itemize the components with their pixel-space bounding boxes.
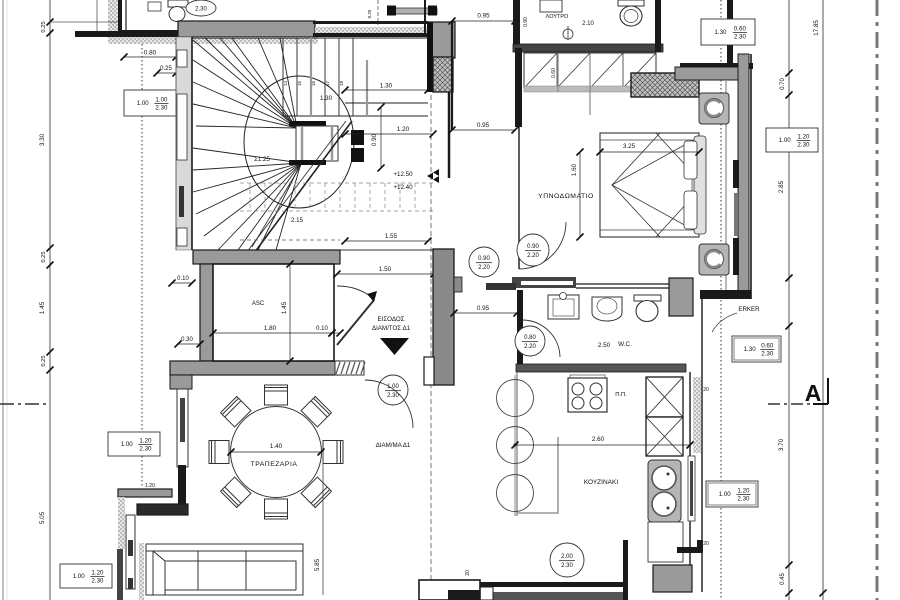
dining table (231, 407, 322, 498)
svg-text:18: 18 (339, 80, 344, 86)
bedroom south glazing (576, 283, 669, 285)
svg-text:0.30: 0.30 (181, 337, 193, 343)
beam over stair top (390, 8, 437, 14)
svg-text:1.50: 1.50 (379, 266, 392, 273)
svg-text:1.30: 1.30 (320, 95, 333, 102)
hall north edge line (340, 249, 433, 251)
svg-text:ΚΟΥΖΙΝΑΚΙ: ΚΟΥΖΙΝΑΚΙ (584, 479, 618, 486)
SE gray pocket (653, 565, 692, 592)
svg-text:Σ1.25: Σ1.25 (254, 156, 270, 163)
stair dim 1.55 (345, 240, 428, 242)
north wall band east (313, 21, 428, 24)
WC sink (592, 297, 622, 321)
svg-text:0.25: 0.25 (41, 355, 47, 366)
bathroom west wall (513, 0, 520, 52)
svg-text:2.15: 2.15 (291, 217, 304, 224)
svg-text:2.30: 2.30 (761, 351, 774, 358)
stair west wall (176, 37, 192, 250)
lobby east wall (727, 0, 733, 63)
bed headboard (694, 136, 706, 234)
projection dotted line west (141, 36, 143, 488)
svg-text:0.95: 0.95 (477, 13, 490, 20)
pier between bedroom and kitchen (669, 278, 693, 316)
overall dimension line right 17.85 (822, 0, 824, 600)
heater unit top (699, 93, 729, 124)
kitchen round table 3 (497, 475, 534, 512)
WC door swing (523, 320, 560, 357)
svg-text:1.00: 1.00 (137, 100, 150, 107)
lobby south wall (680, 63, 753, 69)
living west window lower (126, 515, 135, 589)
svg-text:2.00: 2.00 (561, 554, 573, 560)
exterior insulation hatch top-left (108, 0, 118, 44)
svg-text:2.30: 2.30 (91, 578, 104, 585)
door stamp 0.90/2.20 bedroom (517, 234, 549, 266)
bedroom NE corner wall horizontal (675, 67, 738, 80)
svg-text:1.55: 1.55 (385, 233, 398, 240)
svg-text:1.00: 1.00 (155, 97, 168, 104)
svg-text:1.30: 1.30 (744, 346, 757, 353)
svg-text:2.30: 2.30 (139, 446, 152, 453)
ASC left wall (200, 264, 213, 361)
dim box 1.00 1.20/2.30 mid-left (108, 432, 160, 456)
living west wall black (178, 465, 186, 510)
door stamp 0.80/2.20 (515, 326, 545, 356)
section cut dash-dot line left (0, 403, 46, 405)
property boundary dash-dot line right (876, 0, 879, 600)
svg-text:0.90: 0.90 (523, 17, 529, 27)
svg-text:5.85: 5.85 (314, 558, 321, 571)
stair dim 1.20 (345, 133, 433, 135)
WC shower (548, 295, 579, 319)
living west window upper (177, 389, 188, 467)
kitchen counter outline (517, 372, 558, 516)
svg-text:15: 15 (297, 80, 302, 86)
sofa (146, 544, 303, 595)
lift car (296, 126, 338, 161)
svg-text:0.80: 0.80 (144, 50, 157, 57)
shaft box X upper (646, 377, 683, 417)
svg-text:ASC: ASC (252, 301, 265, 307)
svg-text:1.00: 1.00 (73, 573, 86, 580)
WC west wall (517, 290, 523, 371)
bedroom west wall (515, 48, 522, 127)
svg-text:5.05: 5.05 (39, 511, 46, 524)
svg-text:0.45: 0.45 (780, 573, 786, 585)
stair dim 0.90 vertical (380, 107, 382, 168)
stamp ellipse 2.30 (186, 0, 216, 16)
svg-text:1.00: 1.00 (779, 137, 792, 144)
svg-text:0.60: 0.60 (734, 26, 747, 33)
svg-text:+12.40: +12.40 (393, 184, 413, 191)
dimension chain line right (788, 0, 790, 600)
stove (570, 375, 605, 378)
bathroom east wall (655, 0, 661, 52)
window in stair west wall (177, 50, 187, 67)
kitchen east window (688, 456, 695, 521)
svg-text:1.40: 1.40 (270, 443, 283, 450)
svg-text:3.25: 3.25 (623, 143, 636, 150)
svg-text:0.60: 0.60 (761, 343, 774, 350)
curtain box dark bars (733, 160, 739, 188)
svg-text:14: 14 (283, 80, 288, 86)
svg-text:2.50: 2.50 (598, 342, 611, 349)
svg-text:1.20: 1.20 (737, 488, 750, 495)
svg-text:A: A (805, 380, 822, 406)
svg-text:1.80: 1.80 (264, 325, 277, 332)
svg-text:Π.Π.: Π.Π. (615, 392, 627, 398)
dim 0.95 top (452, 20, 515, 22)
svg-text:2.30: 2.30 (797, 142, 810, 149)
bathroom sink (540, 0, 562, 12)
hall dim 0.95 (454, 312, 517, 314)
wall stub left (75, 31, 118, 37)
svg-text:0.25: 0.25 (367, 9, 372, 18)
svg-text:W.C.: W.C. (618, 341, 632, 348)
bed (600, 133, 699, 237)
bathroom south wall (513, 44, 663, 52)
svg-text:1.00: 1.00 (121, 441, 134, 448)
ceiling edge dashed line living room (430, 95, 432, 582)
dim 0.25 (157, 72, 176, 74)
dim box 1.00 1.20/2.30 right (766, 128, 818, 152)
svg-text:1.45: 1.45 (39, 301, 46, 314)
svg-text:2.30: 2.30 (734, 34, 747, 41)
svg-text:2.30: 2.30 (155, 105, 168, 112)
svg-text:0.80: 0.80 (524, 335, 536, 341)
stair east wall edge line (448, 92, 451, 178)
svg-text:0.25: 0.25 (41, 21, 47, 32)
stair guard dark bar top (289, 121, 326, 126)
ASC dim 1.80 / 0.10 (213, 332, 332, 334)
stair dim 1.30 upper (345, 89, 428, 91)
dim box 1.30 0.60/2.30 lower (732, 336, 781, 362)
svg-text:ΔΙΑΜ/ΜΑ Δ1: ΔΙΑΜ/ΜΑ Δ1 (376, 442, 411, 449)
svg-text:2.30: 2.30 (561, 563, 573, 569)
stringer diagonal double line (229, 121, 352, 287)
svg-text:0.10: 0.10 (316, 326, 328, 332)
stair fan treads lower (193, 148, 301, 250)
svg-text:1.45: 1.45 (281, 301, 288, 314)
svg-text:1.60: 1.60 (571, 163, 578, 176)
svg-text:3.70: 3.70 (778, 438, 785, 451)
svg-text:2.60: 2.60 (592, 436, 605, 443)
living step band upper (118, 489, 172, 497)
bathroom toilet (618, 0, 644, 6)
entry arrow (380, 338, 409, 355)
svg-text:2.20: 2.20 (527, 253, 539, 259)
svg-text:2.10: 2.10 (582, 21, 594, 27)
entry door swing lower (365, 380, 413, 428)
north wall band west (178, 21, 315, 37)
ASC bottom wall (170, 361, 340, 375)
svg-text:0.10: 0.10 (177, 276, 189, 282)
insulation dots under north wall (108, 37, 318, 44)
svg-text:ΤΡΑΠΕΖΑΡΙΑ: ΤΡΑΠΕΖΑΡΙΑ (251, 461, 298, 468)
shaft west wall (451, 21, 453, 130)
svg-text:1.20: 1.20 (797, 134, 810, 141)
toilet top-left (168, 0, 188, 7)
dining dim 1.40 (231, 451, 321, 453)
bedroom dim 1.60 vertical (579, 152, 581, 237)
lift door block upper (351, 130, 364, 145)
door stamp 0.90/2.20 hall-west (469, 247, 499, 277)
south step white (448, 587, 493, 600)
window in stair west wall 3 (177, 228, 187, 246)
stair guard dark bar bottom (289, 160, 326, 165)
shaft box X lower (646, 417, 683, 456)
stair enclosure top line (192, 37, 428, 39)
south-east vertical wall (623, 540, 628, 600)
ASC shaft interior (213, 264, 334, 361)
south wall band (448, 582, 628, 587)
dining chairs (209, 385, 343, 519)
svg-text:2.20: 2.20 (478, 265, 490, 271)
stair direction line with arrow (252, 165, 301, 247)
svg-text:2.85: 2.85 (778, 180, 785, 193)
ASC dim 1.45 vertical (289, 264, 291, 361)
svg-text:17: 17 (325, 80, 330, 86)
kitchen north wall (516, 364, 686, 372)
svg-text:1.30: 1.30 (714, 29, 727, 36)
wardrobe depth dim (557, 54, 559, 92)
tread edge line (283, 115, 428, 117)
bedroom dim 3.25 (600, 151, 699, 153)
svg-text:20: 20 (703, 387, 709, 393)
dim 1.50 entry (337, 273, 434, 275)
svg-text:+12.50: +12.50 (393, 171, 413, 178)
svg-text:2.20: 2.20 (524, 344, 536, 350)
kitchen sink unit (648, 460, 681, 522)
svg-text:ΔΙΑΜ/ΤΟΣ Δ1: ΔΙΑΜ/ΤΟΣ Δ1 (372, 325, 411, 332)
svg-text:2.30: 2.30 (387, 393, 399, 399)
svg-text:ΕΙΣΟΔΟΣ: ΕΙΣΟΔΟΣ (378, 316, 405, 323)
lift side rails (310, 38, 312, 116)
apartment entry door leaf (337, 300, 374, 345)
pillow top (684, 141, 697, 179)
upper flight vertical treads (283, 38, 353, 116)
svg-text:ERKER: ERKER (738, 306, 760, 313)
svg-text:0.70: 0.70 (780, 78, 786, 90)
svg-text:0.95: 0.95 (477, 122, 490, 129)
svg-text:1.30: 1.30 (380, 83, 393, 90)
tread numbers (283, 80, 344, 86)
dashed landing line (240, 239, 340, 241)
window in stair west wall 2 (177, 94, 187, 160)
svg-text:20: 20 (703, 541, 709, 547)
projection dotted line east (720, 0, 722, 600)
bedroom south pocket door (512, 277, 576, 288)
svg-text:ΛΟΥΤΡΟ: ΛΟΥΤΡΟ (546, 14, 569, 20)
entry threshold striped (335, 361, 364, 375)
kitchen dim 2.60 (515, 444, 690, 446)
svg-text:1.20: 1.20 (91, 570, 104, 577)
svg-text:1.00: 1.00 (719, 491, 732, 498)
kitchen round table 1 (497, 380, 534, 417)
wall west of small bathroom (118, 0, 122, 37)
dashed upper-floor treads (240, 183, 433, 211)
bed cover diagonals (612, 133, 699, 237)
dim box 1.00 1.00/2.30 (124, 90, 176, 116)
stair NE black wall bar (427, 22, 433, 92)
bedroom SE wall (700, 290, 751, 299)
dim 0.80 small bath (124, 56, 176, 58)
svg-text:0.90: 0.90 (527, 244, 539, 250)
svg-text:0.60: 0.60 (551, 68, 557, 78)
svg-text:0.25: 0.25 (41, 251, 47, 262)
svg-text:2.30: 2.30 (195, 7, 207, 13)
svg-text:17.85: 17.85 (813, 20, 820, 36)
ASC step wall left (170, 375, 192, 389)
svg-text:20: 20 (465, 570, 471, 576)
hatched pier NE of stair (433, 57, 453, 92)
ASC top wall (193, 250, 340, 264)
stair winder oval (244, 76, 354, 208)
stair fan treads upper (193, 38, 297, 128)
living room dim 5.85 vertical (322, 452, 324, 595)
stair NE corner wall block (428, 22, 455, 58)
dark mullion (179, 186, 184, 217)
kitchen round table 2 (497, 427, 534, 464)
WC north wall (486, 283, 516, 290)
bedroom east wall (738, 54, 749, 292)
svg-text:0.90: 0.90 (478, 256, 490, 262)
kitchen door stamp 2.00/2.30 (550, 543, 584, 577)
svg-text:1.20: 1.20 (145, 483, 155, 489)
door stamp 1.00/2.30 (378, 375, 408, 405)
hatched chimney block (631, 73, 699, 97)
living step wall horizontal (137, 504, 188, 515)
svg-text:1.20: 1.20 (139, 438, 152, 445)
dimension chain line left (49, 0, 51, 600)
heater unit bottom (699, 244, 729, 275)
svg-text:0.25: 0.25 (160, 66, 172, 72)
west corner bottom (117, 549, 123, 600)
page edge line left (2, 0, 4, 600)
lift door block lower (351, 148, 364, 162)
svg-text:1.20: 1.20 (397, 126, 410, 133)
pillow bottom (684, 191, 697, 229)
WC toilet (634, 295, 661, 301)
sink top-left (148, 2, 161, 11)
cabinet below sink (648, 522, 683, 562)
dim box 1.00 1.20/2.30 kitchen-east (706, 481, 758, 507)
svg-text:0.95: 0.95 (477, 305, 490, 312)
wardrobe (524, 53, 656, 88)
dim box 1.00 1.20/2.30 bottom-left (60, 564, 112, 588)
svg-text:2.30: 2.30 (737, 496, 750, 503)
dim 0.95 bottom (452, 129, 515, 131)
projection line top (96, 0, 98, 32)
dim box 1.30 0.60/2.30 top (701, 19, 755, 45)
svg-text:ΥΠΝΟΔΩΜΑΤΙΟ: ΥΠΝΟΔΩΜΑΤΙΟ (538, 193, 594, 200)
kitchen SE corner bars (677, 547, 703, 553)
svg-text:3.30: 3.30 (39, 133, 46, 146)
bottom-right step box (419, 580, 480, 600)
table centers line (514, 375, 516, 516)
wall south of small bathroom (118, 30, 180, 37)
svg-text:0.90: 0.90 (371, 133, 378, 146)
kitchen east wall (689, 372, 691, 582)
erker structural pier (433, 249, 454, 385)
insulation dots west (118, 497, 125, 549)
pier foot white (424, 357, 434, 385)
bedroom door swing (519, 222, 566, 269)
